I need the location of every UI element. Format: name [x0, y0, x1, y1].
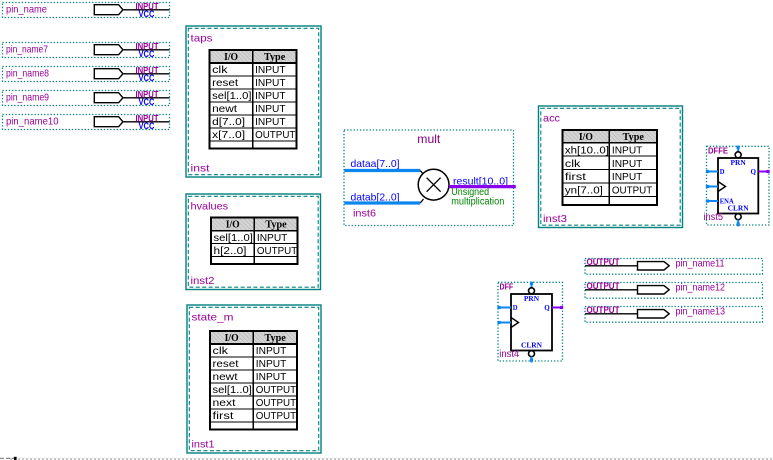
pin symbol pin_name11 [638, 262, 670, 270]
svg-text:pin_name12: pin_name12 [676, 282, 726, 294]
D wire stub inst4 [498, 307, 511, 309]
svg-text:OUTPUT: OUTPUT [256, 410, 297, 422]
selection box pin_name12 [585, 283, 763, 299]
annotation Unsigned multiplication [451, 187, 504, 208]
clock input triangle inst4 [511, 318, 519, 328]
svg-text:Type: Type [623, 131, 644, 143]
port table of acc [562, 130, 657, 205]
port row sel[1..0] : OUTPUT [213, 384, 297, 396]
port table of state_m [210, 331, 297, 430]
svg-text:first: first [213, 410, 234, 422]
svg-text:OUTPUT: OUTPUT [587, 281, 620, 291]
svg-text:INPUT: INPUT [612, 158, 643, 170]
svg-text:DFFE: DFFE [708, 146, 728, 156]
wire stub pin_name10 [123, 121, 170, 123]
wire stub pin_name7 [123, 49, 170, 51]
svg-text:INPUT: INPUT [256, 345, 287, 357]
svg-text:clk: clk [565, 158, 581, 170]
selection box pin_name10 [3, 115, 170, 130]
svg-text:D: D [720, 167, 725, 176]
svg-text:I/O: I/O [226, 219, 240, 231]
svg-text:VCC: VCC [139, 97, 155, 107]
block border hvalues [186, 194, 321, 290]
svg-text:state_m: state_m [192, 311, 234, 323]
svg-text:CLRN: CLRN [728, 203, 750, 212]
svg-text:hvalues: hvalues [191, 200, 229, 212]
connector dataa to multiplier circle [420, 171, 423, 175]
svg-text:Type: Type [264, 51, 285, 63]
block border acc [539, 106, 683, 228]
block symbol hvalues (inst2) [186, 194, 321, 290]
PRN wire stub inst5 [737, 146, 739, 152]
Q wire stub (bus) inst4 [552, 307, 563, 309]
svg-text:pin_name13: pin_name13 [676, 306, 726, 318]
pin symbol pin_name9 [94, 93, 123, 103]
flip-flop DFF (inst4) [497, 282, 563, 363]
svg-text:OUTPUT: OUTPUT [612, 185, 653, 197]
selection box pin_name7 [3, 43, 170, 58]
port row sel[1..0] : INPUT [214, 232, 288, 244]
table header of acc [579, 131, 644, 143]
svg-text:Type: Type [265, 219, 286, 231]
pin symbol pin_name12 [638, 286, 670, 294]
block symbol acc (inst3) [539, 106, 683, 228]
svg-text:OUTPUT: OUTPUT [255, 129, 296, 141]
svg-text:inst: inst [191, 163, 210, 175]
clock wire stub inst5 [707, 186, 719, 188]
svg-text:next: next [213, 397, 236, 409]
svg-text:INPUT: INPUT [612, 171, 643, 183]
svg-text:INPUT: INPUT [255, 90, 286, 102]
svg-text:OUTPUT: OUTPUT [256, 397, 297, 409]
svg-text:I/O: I/O [224, 51, 238, 63]
block border taps [186, 26, 321, 177]
svg-text:I/O: I/O [225, 332, 239, 344]
selection box pin_name11 [585, 259, 763, 275]
wire stub pin_name13 [585, 313, 638, 315]
flip-flop DFFE (inst5) [704, 146, 770, 227]
D wire stub inst5 [707, 171, 719, 173]
multiplier megafunction mult (inst6) [344, 130, 516, 226]
selection box pin_name [3, 3, 170, 18]
input pin pin_name9 [3, 89, 170, 107]
body inst5 [718, 158, 758, 214]
svg-text:Q: Q [544, 303, 550, 312]
ENA wire stub inst5 [707, 200, 719, 202]
input pin pin_name8 [3, 65, 170, 83]
svg-text:inst6: inst6 [353, 208, 376, 220]
svg-text:pin_name9: pin_name9 [6, 91, 49, 103]
port row clk : INPUT [212, 64, 286, 76]
svg-text:INPUT: INPUT [257, 232, 288, 244]
svg-text:Q: Q [751, 167, 757, 176]
bus wire dataa[7..0] [344, 169, 420, 172]
port row newt : INPUT [213, 371, 287, 383]
svg-text:CLRN: CLRN [521, 340, 543, 349]
pin symbol pin_name13 [638, 310, 670, 318]
svg-text:clk: clk [213, 345, 229, 357]
port row clk : INPUT [213, 345, 287, 357]
svg-text:Type: Type [265, 332, 286, 344]
selection box inst6 [344, 130, 514, 226]
port row first : OUTPUT [213, 410, 297, 422]
svg-text:clk: clk [212, 64, 228, 76]
table header of state_m [225, 332, 286, 344]
clock input triangle inst5 [718, 182, 726, 192]
svg-text:D: D [513, 303, 518, 312]
port row reset : INPUT [213, 358, 287, 370]
svg-text:OUTPUT: OUTPUT [256, 384, 297, 396]
PRN inversion bubble inst5 [735, 152, 741, 158]
block symbol state_m (inst1) [187, 305, 321, 453]
svg-text:inst5: inst5 [704, 212, 724, 223]
port row next : OUTPUT [213, 397, 297, 409]
port row x[7..0] : OUTPUT [212, 129, 296, 141]
svg-text:pin_name10: pin_name10 [6, 115, 59, 127]
body inst4 [511, 294, 552, 351]
port row d[7..0] : INPUT [212, 116, 286, 128]
port row sel[1..0] : INPUT [212, 90, 286, 102]
pin symbol pin_name8 [94, 69, 123, 79]
svg-text:inst4: inst4 [499, 349, 519, 360]
wire stub pin_name9 [123, 97, 170, 99]
svg-text:pin_name: pin_name [6, 3, 47, 15]
bus wire datab[2..0] [344, 201, 420, 204]
svg-text:PRN: PRN [731, 158, 747, 167]
svg-text:OUTPUT: OUTPUT [257, 245, 298, 257]
wire stub pin_name [123, 9, 170, 11]
svg-text:d[7..0]: d[7..0] [212, 116, 245, 128]
clock wire stub inst4 [498, 322, 511, 324]
input pin pin_name7 [3, 41, 170, 59]
svg-text:inst1: inst1 [192, 439, 215, 451]
table header of hvalues [226, 219, 287, 231]
wire stub pin_name12 [585, 289, 638, 291]
svg-text:first: first [565, 171, 586, 183]
svg-text:h[2..0]: h[2..0] [214, 245, 247, 257]
Q wire stub (bus) inst5 [758, 171, 769, 173]
svg-text:pin_name11: pin_name11 [676, 258, 725, 270]
svg-text:inst2: inst2 [191, 275, 215, 287]
output pin pin_name12 [585, 281, 763, 298]
bus wire result[10..0] [449, 185, 516, 188]
port table of taps [210, 50, 297, 148]
svg-text:INPUT: INPUT [255, 64, 286, 76]
connector datab to multiplier circle [420, 199, 423, 203]
svg-text:INPUT: INPUT [255, 77, 286, 89]
selection box inst5 [707, 146, 770, 225]
svg-text:pin_name7: pin_name7 [6, 43, 48, 55]
wire stub pin_name8 [123, 73, 170, 75]
svg-text:VCC: VCC [139, 121, 155, 131]
svg-text:INPUT: INPUT [256, 358, 287, 370]
port row newt : INPUT [212, 103, 286, 115]
svg-text:sel[1..0]: sel[1..0] [213, 384, 252, 396]
svg-text:x[7..0]: x[7..0] [212, 129, 245, 141]
selection box pin_name8 [3, 67, 170, 82]
svg-text:dataa[7..0]: dataa[7..0] [351, 158, 400, 170]
port row xh[10..0] : INPUT [565, 144, 643, 156]
pin symbol pin_name7 [94, 45, 123, 55]
selection box pin_name9 [3, 91, 170, 106]
port table of hvalues [211, 218, 298, 265]
output pin pin_name13 [585, 305, 763, 322]
svg-text:INPUT: INPUT [255, 103, 286, 115]
svg-text:yn[7..0]: yn[7..0] [565, 185, 603, 197]
port row yn[7..0] : OUTPUT [565, 185, 653, 197]
svg-text:DFF: DFF [500, 282, 514, 292]
CLRN inversion bubble inst5 [735, 214, 741, 220]
svg-text:sel[1..0]: sel[1..0] [212, 90, 251, 102]
port row h[2..0] : OUTPUT [214, 245, 298, 257]
block border state_m [187, 305, 321, 453]
pin symbol pin_name [94, 5, 123, 15]
svg-text:INPUT: INPUT [255, 116, 286, 128]
horizontal scrollbar strip (bottom) [0, 457, 773, 460]
svg-text:taps: taps [191, 32, 213, 44]
PRN inversion bubble inst4 [529, 288, 535, 294]
svg-text:INPUT: INPUT [256, 371, 287, 383]
svg-text:sel[1..0]: sel[1..0] [214, 232, 253, 244]
svg-text:newt: newt [213, 371, 238, 383]
pin symbol pin_name10 [94, 117, 123, 127]
svg-text:PRN: PRN [524, 294, 540, 303]
table header of taps [224, 51, 285, 63]
input pin pin_name10 [3, 113, 170, 131]
input pin pin_name [3, 1, 170, 19]
port row reset : INPUT [212, 77, 286, 89]
svg-text:newt: newt [212, 103, 237, 115]
output pin pin_name11 [585, 257, 763, 274]
selection box inst4 [498, 282, 563, 361]
svg-text:reset: reset [212, 77, 238, 89]
svg-text:multiplication: multiplication [451, 197, 504, 208]
multiplier circle symbol [418, 169, 449, 200]
svg-text:OUTPUT: OUTPUT [587, 257, 620, 267]
selection box pin_name13 [585, 307, 763, 323]
block symbol taps (inst) [186, 26, 321, 177]
svg-text:acc: acc [543, 112, 560, 124]
wire stub pin_name11 [585, 265, 638, 267]
CLRN wire stub inst5 [737, 220, 739, 227]
svg-text:xh[10..0]: xh[10..0] [565, 144, 609, 156]
port row clk : INPUT [565, 158, 643, 170]
port row first : INPUT [565, 171, 643, 183]
CLRN wire stub inst4 [531, 357, 533, 363]
svg-text:inst3: inst3 [543, 213, 567, 225]
svg-text:VCC: VCC [139, 49, 155, 59]
svg-text:VCC: VCC [139, 73, 155, 83]
CLRN inversion bubble inst4 [529, 351, 535, 357]
PRN wire stub inst4 [531, 282, 533, 288]
svg-text:reset: reset [213, 358, 239, 370]
svg-text:I/O: I/O [579, 131, 593, 143]
svg-text:VCC: VCC [139, 9, 155, 19]
svg-text:INPUT: INPUT [612, 144, 643, 156]
svg-text:mult: mult [417, 132, 441, 146]
svg-text:OUTPUT: OUTPUT [587, 305, 620, 315]
svg-text:pin_name8: pin_name8 [6, 67, 49, 79]
